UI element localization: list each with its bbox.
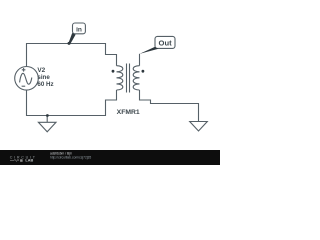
svg-text:Out: Out: [159, 39, 173, 48]
svg-text:XFMR1: XFMR1: [117, 109, 140, 116]
svg-text:htlp;//circuitlab.com/csj72j35: htlp;//circuitlab.com/csj72j35: [50, 156, 91, 160]
svg-text:in: in: [76, 26, 82, 33]
svg-text:60 Hz: 60 Hz: [37, 81, 53, 88]
svg-text:LAB: LAB: [25, 159, 33, 163]
